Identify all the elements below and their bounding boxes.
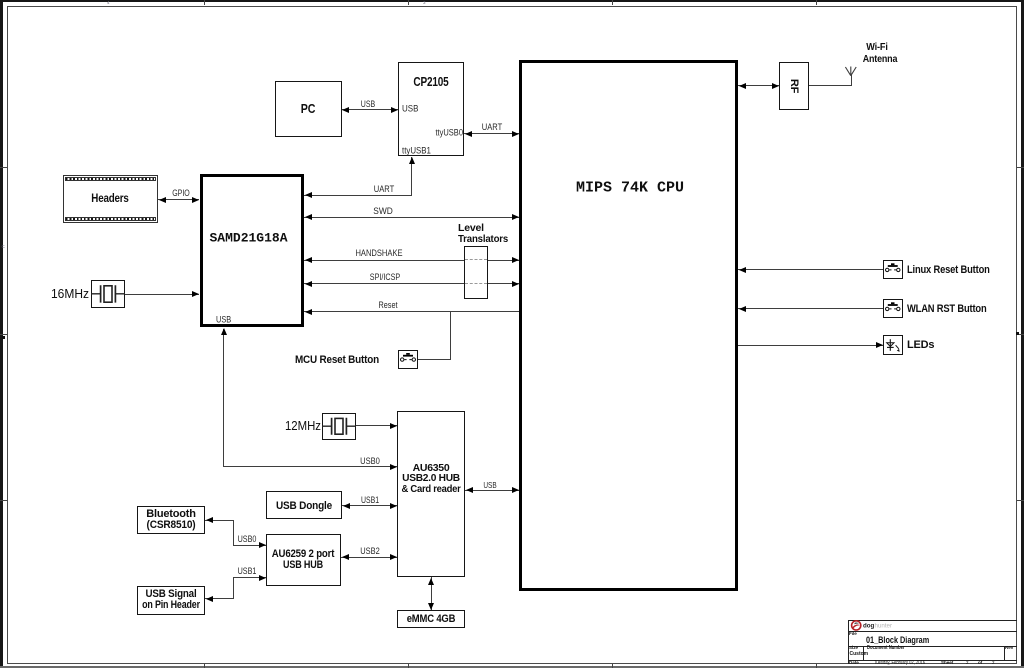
button SW_MCU symbol xyxy=(398,350,418,369)
wire Reset branch vertical xyxy=(450,311,451,360)
wire USB Signal horizontal xyxy=(205,598,234,599)
title block Size label xyxy=(849,646,858,651)
arrow into CPU (HANDSHAKE) xyxy=(512,257,519,263)
wire SAMD to CP2105 horizontal (UART) xyxy=(304,195,412,196)
arrow into CPU (WLAN rst) xyxy=(739,306,746,312)
label USB Signal on Pin Header xyxy=(146,588,197,600)
arrow into CPU (SPI/ICSP) xyxy=(512,281,519,287)
label Linux Reset Button xyxy=(907,264,990,276)
box Headers (pin header J1) xyxy=(63,175,159,224)
box U_AU6350 xyxy=(397,411,465,577)
arrow into AU6259 (USB0) xyxy=(259,542,266,548)
label eMMC 4GB xyxy=(407,613,456,625)
net label UART (lower) xyxy=(374,184,394,194)
title block outline left edge xyxy=(848,620,849,664)
antenna symbol xyxy=(843,60,859,77)
label LEDs xyxy=(907,339,934,351)
zone tick top 1 xyxy=(204,0,205,5)
zone tick left 3 xyxy=(0,500,7,501)
arrow into eMMC xyxy=(428,603,434,610)
wire WLAN RST Button to CPU xyxy=(738,308,883,309)
box U_CP2105 xyxy=(398,62,465,157)
arrow into SAMD (GPIO) xyxy=(192,197,199,203)
zone tick bottom 1 xyxy=(204,664,205,668)
header pin strip top xyxy=(65,177,157,182)
arrow into Headers xyxy=(159,197,166,203)
title block Date label xyxy=(849,661,859,666)
zone dot right xyxy=(1016,332,1019,335)
wire Bluetooth horizontal xyxy=(205,520,234,521)
wire USB Signal vertical xyxy=(233,577,234,599)
label USB Dongle xyxy=(276,500,332,512)
box USB Dongle xyxy=(266,491,343,519)
button SW_MCU box xyxy=(398,350,418,369)
wire Linux Reset Button to CPU xyxy=(738,269,883,270)
zone tick top 4 xyxy=(816,0,817,5)
wire USB between AU6350 and CPU xyxy=(465,490,519,491)
net label USB1 (pin header) xyxy=(238,566,257,576)
wire Bluetooth to AU6259 xyxy=(233,545,266,546)
label CP2105 xyxy=(413,75,448,89)
net label USB2 xyxy=(360,546,380,556)
zone tick right 2 xyxy=(1017,334,1024,335)
sheet outer border top bar xyxy=(0,0,1024,2)
net label USB (PC link) xyxy=(361,99,375,109)
title block top line xyxy=(848,620,1017,621)
svg-text:dog: dog xyxy=(863,622,875,629)
title block Sheet label xyxy=(941,661,953,666)
zone label left C xyxy=(2,245,5,250)
svg-text:hunter: hunter xyxy=(875,622,893,629)
box PC xyxy=(275,81,342,137)
net label SPI/ICSP xyxy=(370,272,400,282)
box U_RF xyxy=(779,62,809,111)
title block of label xyxy=(978,661,982,666)
LED D1 symbol xyxy=(883,335,903,355)
wire GPIO xyxy=(158,199,199,200)
wire CP2105 ttyUSB0 to CPU (UART) xyxy=(464,133,519,134)
pin USB of SAMD xyxy=(216,315,231,326)
arrow into LEDs box xyxy=(876,342,883,348)
arrow into SAMD (16MHz) xyxy=(192,291,199,297)
pin USB of CP2105 xyxy=(402,103,418,114)
label RF (rotated) xyxy=(788,78,800,92)
crystal Y2 symbol xyxy=(322,413,356,440)
wire HANDSHAKE xyxy=(304,260,519,261)
title block line under title row xyxy=(848,646,1017,647)
title block date value xyxy=(874,661,925,666)
box U_SAMD21G18A xyxy=(200,174,304,327)
arrow into SAMD (HANDSHAKE) xyxy=(305,257,312,263)
title block sheet number xyxy=(966,661,969,666)
title block File label xyxy=(849,632,857,637)
title block Custom value xyxy=(850,652,869,657)
wire PC to CP2105 (USB) xyxy=(342,109,398,110)
arrow into CPU (UART) xyxy=(512,131,519,137)
wire CPU to RF xyxy=(738,85,779,86)
net label USB1 (dongle) xyxy=(361,495,379,505)
label WLAN RST Button xyxy=(907,303,987,315)
wire 12MHz to AU6350 xyxy=(356,425,397,426)
arrow into SAMD (Reset) xyxy=(305,309,312,315)
net label UART (upper) xyxy=(482,122,502,132)
value label 12MHz xyxy=(284,419,320,433)
crystal Y1 symbol xyxy=(91,280,125,308)
button SW_WLAN symbol xyxy=(883,299,903,319)
label SAMD21G18A xyxy=(209,231,287,246)
zone tick right 1 xyxy=(1017,167,1024,168)
arrow into AU6350 (USB) xyxy=(466,487,473,493)
net label Reset xyxy=(378,300,397,310)
arrow into PC xyxy=(342,107,349,113)
label MCU Reset Button xyxy=(295,354,379,366)
wire antenna vertical xyxy=(851,75,852,86)
wire LEDs to CPU xyxy=(738,345,883,346)
dashed wire inside level translator (SPI) xyxy=(465,283,487,284)
label Headers xyxy=(91,193,128,205)
zone tick left 2 xyxy=(0,334,7,335)
title block Rev label xyxy=(1005,646,1013,651)
wire USB2 xyxy=(341,557,397,558)
arrow into AU6350 (USB2) xyxy=(390,554,397,560)
sheet outer border left bar xyxy=(0,0,3,668)
title block rev cell divider xyxy=(1004,646,1005,661)
zone tick top 3 xyxy=(612,0,613,5)
zone dot left xyxy=(2,336,5,339)
net label GPIO xyxy=(172,188,190,198)
label PC xyxy=(301,102,315,116)
wire USB Signal to AU6259 xyxy=(233,577,266,578)
label AU6350 xyxy=(413,462,450,474)
arrow into AU6350 (USB0) xyxy=(390,464,397,470)
arrow into AU6259 (USB2) xyxy=(342,554,349,560)
wire SWD xyxy=(304,217,519,218)
label AU6259 2 port USB HUB xyxy=(272,548,334,560)
arrow into CPU (SWD) xyxy=(512,214,519,220)
arrow into CPU (Linux reset) xyxy=(739,267,746,273)
header pin strip bottom xyxy=(65,217,157,222)
wire Reset xyxy=(304,311,519,312)
wire MCU button to Reset branch xyxy=(418,359,451,360)
wire RF to antenna xyxy=(809,85,852,86)
arrow into AU6350 (eMMC) xyxy=(428,578,434,585)
arrow into CP2105 USB pin xyxy=(391,107,398,113)
net label USB0 (bluetooth) xyxy=(238,534,257,544)
title block line under logo row xyxy=(848,631,1017,632)
net label USB (AU6350 link) xyxy=(483,480,496,490)
label Wi-Fi Antenna xyxy=(866,41,887,53)
title block sheet total xyxy=(992,661,995,666)
arrow into CP2105 ttyUSB0 xyxy=(465,131,472,137)
net label USB0 (SAMD to AU6350) xyxy=(360,456,380,466)
dashed wire inside level translator (HANDSHAKE) xyxy=(465,259,487,260)
arrow into USB Signal box xyxy=(206,596,213,602)
arrow into RF xyxy=(772,83,779,89)
arrow into CP2105 ttyUSB1 xyxy=(409,157,415,164)
arrow into CPU (RF link) xyxy=(739,83,746,89)
button SW_WLAN box xyxy=(883,299,903,319)
zone tick top 2 xyxy=(408,0,409,5)
sheet outer border bottom line xyxy=(0,666,1024,667)
label Bluetooth (CSR8510) xyxy=(146,508,196,520)
zone label top 3 xyxy=(423,1,426,6)
wire Bluetooth vertical xyxy=(233,520,234,545)
box U_CPU MIPS 74K xyxy=(519,60,738,591)
wire SPI/ICSP xyxy=(304,283,519,284)
arrow into SAMD bottom (USB0) xyxy=(221,328,227,335)
button SW_Linux box xyxy=(883,260,903,280)
box eMMC 4GB xyxy=(397,610,465,628)
arrow into AU6259 (USB1) xyxy=(259,575,266,581)
label Level Translators xyxy=(458,222,484,234)
box Level Translators xyxy=(464,246,489,299)
arrow into AU6350 (12MHz) xyxy=(390,423,397,429)
arrow into USB Dongle xyxy=(343,503,350,509)
title 01_Block Diagram xyxy=(866,635,929,645)
wire AU6350 to eMMC xyxy=(431,577,432,610)
zone tick left 1 xyxy=(0,167,7,168)
box U_AU6259 xyxy=(266,534,342,587)
label MIPS 74K CPU xyxy=(576,180,684,197)
pin ttyUSB1 of CP2105 xyxy=(402,145,431,156)
arrow into Bluetooth xyxy=(206,517,213,523)
net label SWD xyxy=(373,206,393,216)
title block size cell divider xyxy=(863,646,864,661)
zone tick bottom 2 xyxy=(408,664,409,668)
zone tick right 3 xyxy=(1017,500,1024,501)
zone label top 4 xyxy=(107,1,110,6)
arrow into SAMD (SWD) xyxy=(305,214,312,220)
button SW_Linux symbol xyxy=(883,260,903,280)
arrow into SAMD (SPI/ICSP) xyxy=(305,281,312,287)
zone tick bottom 3 xyxy=(612,664,613,668)
arrow into AU6350 (USB1) xyxy=(390,503,397,509)
wire USB1 dongle link xyxy=(342,505,397,506)
logo dog hunter xyxy=(850,620,900,631)
arrow into SAMD (UART) xyxy=(305,192,312,198)
value label 16MHz xyxy=(50,287,88,301)
wire USB0 horizontal to AU6350 xyxy=(223,466,397,467)
pin ttyUSB0 of CP2105 xyxy=(435,127,463,138)
title block line above date row xyxy=(848,660,1017,661)
box USB Signal on Pin Header xyxy=(137,586,205,615)
sheet outer border right bar xyxy=(1021,0,1024,668)
title block Document Number label xyxy=(867,646,905,651)
LED D1 box xyxy=(883,335,903,355)
box Bluetooth CSR8510 xyxy=(137,506,205,535)
wire USB0 vertical from SAMD xyxy=(223,329,224,467)
crystal Y1 16MHz box xyxy=(91,280,125,308)
arrow into CPU (USB) xyxy=(512,487,519,493)
zone tick bottom 4 xyxy=(816,664,817,668)
crystal Y2 12MHz box xyxy=(322,413,356,440)
wire SAMD to CP2105 ttyUSB1 vertical xyxy=(411,157,412,195)
wire 16MHz to SAMD xyxy=(125,294,199,295)
net label HANDSHAKE xyxy=(355,248,402,258)
